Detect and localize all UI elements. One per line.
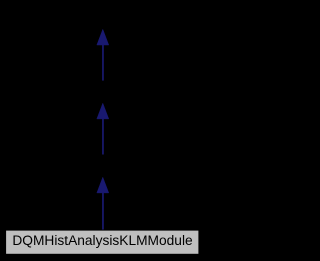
inheritance graph — [0, 0, 205, 261]
arrowhead C — [97, 177, 109, 193]
wire: inheritance arrow C (bottom) stem — [102, 193, 104, 230]
wire: inheritance arrow B (middle) stem — [102, 119, 104, 155]
arrowhead B — [97, 103, 109, 119]
wire: inheritance arrow A (top) stem — [102, 45, 104, 81]
arrowhead A — [97, 29, 109, 45]
node DQMHistAnalysisKLMModule (current class box) — [6, 230, 199, 254]
label DQMHistAnalysisKLMModule — [0, 233, 205, 248]
